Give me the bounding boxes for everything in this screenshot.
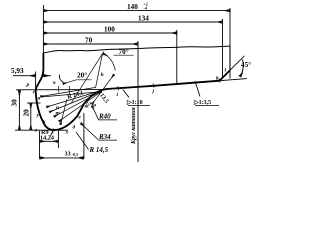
svg-text:-0,5: -0,5 (72, 152, 78, 157)
svg-text:▷1:10: ▷1:10 (126, 99, 143, 106)
svg-text:R 14,5: R 14,5 (89, 146, 109, 154)
leader R40 (92, 106, 99, 120)
chamfer extension line 45 degrees (230, 56, 245, 70)
svg-text:l: l (225, 68, 227, 74)
underline 1:3,5 (195, 105, 219, 107)
svg-text:100: 100 (104, 26, 115, 34)
fan leader line 5 (59, 93, 100, 122)
tick at point i (118, 86, 119, 90)
svg-text:70°: 70° (119, 48, 129, 56)
dimension line 14,24 (40, 140, 59, 142)
fan leader line 2 (47, 90, 103, 107)
dimension line 100 (43, 32, 176, 34)
svg-text:p: p (26, 82, 30, 88)
svg-text:14,24: 14,24 (40, 135, 54, 142)
svg-text:-4: -4 (144, 6, 147, 11)
svg-text:45°: 45° (241, 61, 251, 69)
svg-text:m: m (56, 111, 61, 117)
extension line: 134 right end x=222.5 (222, 19, 224, 79)
fan leader line 1b (R 23,1 lower) (41, 92, 98, 97)
svg-text:a: a (38, 96, 41, 102)
reference line: flange-top level y=90 (16, 89, 104, 91)
svg-text:o: o (35, 128, 38, 134)
extension line: 14,24 right x=58.4 (57, 131, 59, 148)
leader of slope 1:10 (123, 90, 129, 98)
tick at point j (153, 83, 154, 87)
fan leader line 4 (54, 92, 101, 117)
tick on level line x=69.3 (68, 86, 70, 95)
svg-text:134: 134 (138, 15, 149, 23)
underline of 70-degree label (114, 54, 134, 56)
dimension line 5,93 left part (13, 75, 35, 77)
svg-text:30: 30 (11, 99, 19, 107)
leader R34 (81, 123, 99, 140)
reference line: flange tip baseline y=130.2 (15, 129, 68, 131)
double-arrow R13,5 across throat (92, 75, 114, 105)
fan leader line 1 (R 23,1 upper) (41, 88, 96, 97)
svg-text:г.s: г.s (86, 101, 91, 107)
tread extension line at chamfer (220, 79, 248, 81)
wheel profile outline: inner face, flange, throat, tread, chamfer (36, 53, 230, 130)
svg-text:i: i (117, 92, 119, 98)
dimension line 20 (vertical) (30, 103, 32, 130)
svg-text:n: n (56, 105, 59, 111)
leader R9 (50, 129, 54, 137)
reference line: 20mm level y=103 (27, 102, 41, 104)
svg-text:Круг катания: Круг катания (131, 107, 137, 145)
leader of 20-degree label with shelf (63, 80, 92, 84)
extension line: 100 right end x=176.8 (176, 30, 178, 85)
svg-text:R40: R40 (98, 113, 111, 121)
underline 1:10 (128, 105, 150, 107)
extension line: 70 right end / rolling-circle plane x=138 (137, 41, 139, 162)
underline R34 (98, 139, 117, 141)
extension line: 14,24 left x=39.5 (39, 131, 41, 148)
svg-text:20: 20 (22, 109, 30, 117)
steep inner leader to flange tip arc (61, 99, 68, 125)
dimension line 30 (vertical) (18, 90, 20, 130)
tick on level line x=58.7 (58, 86, 60, 93)
tick at point k (219, 78, 220, 82)
svg-text:д: д (73, 124, 76, 131)
leader R 14,5 (76, 132, 89, 150)
extension line: flange crest x=35.6 (35, 72, 37, 94)
reference line B (steep side of 20-degree angle) (96, 54, 103, 88)
svg-text:x: x (65, 130, 69, 136)
extension line: 140 right end x=230 (229, 8, 231, 79)
svg-text:ч: ч (53, 80, 56, 86)
extension line: wheel inner face x=43.4 (42, 5, 44, 77)
svg-text:b: b (43, 120, 46, 126)
svg-text:e: e (79, 115, 82, 121)
svg-text:▷1:3,5: ▷1:3,5 (193, 99, 211, 106)
underline R40 (98, 119, 117, 121)
svg-text:140: 140 (127, 3, 138, 11)
svg-text:20°: 20° (77, 72, 87, 80)
45-degree angle arc (240, 60, 243, 77)
svg-text:R34: R34 (98, 133, 111, 141)
small arc at 20-degree arrow (59, 75, 63, 83)
svg-text:y: y (36, 113, 40, 119)
extension line: 33 left x=39.5 lower part (39, 148, 41, 159)
dimension line 5,93 right arrow (44, 75, 51, 77)
svg-text:o: o (94, 103, 97, 109)
dimension line 70 (43, 43, 137, 45)
leader of slope 1:3,5 (195, 81, 200, 97)
svg-text:70: 70 (85, 37, 93, 45)
svg-text:k: k (216, 76, 219, 82)
70-degree flange face construction line (71, 52, 104, 104)
extension line: 33 right x=83.9 (83, 113, 85, 159)
svg-text:h: h (101, 72, 104, 78)
dimension line 134 (43, 21, 222, 23)
wheel outer face (right vertical) (229, 46, 231, 70)
svg-text:5,93: 5,93 (11, 67, 24, 75)
wavy break line (rim break, top) (43, 46, 230, 53)
fan leader line 3 (50, 91, 103, 113)
svg-text:33: 33 (65, 150, 71, 157)
dimension line 33 (40, 157, 84, 159)
70-degree angle arc (103, 54, 115, 71)
svg-text:j: j (152, 89, 155, 95)
dimension line 140 (43, 10, 230, 12)
